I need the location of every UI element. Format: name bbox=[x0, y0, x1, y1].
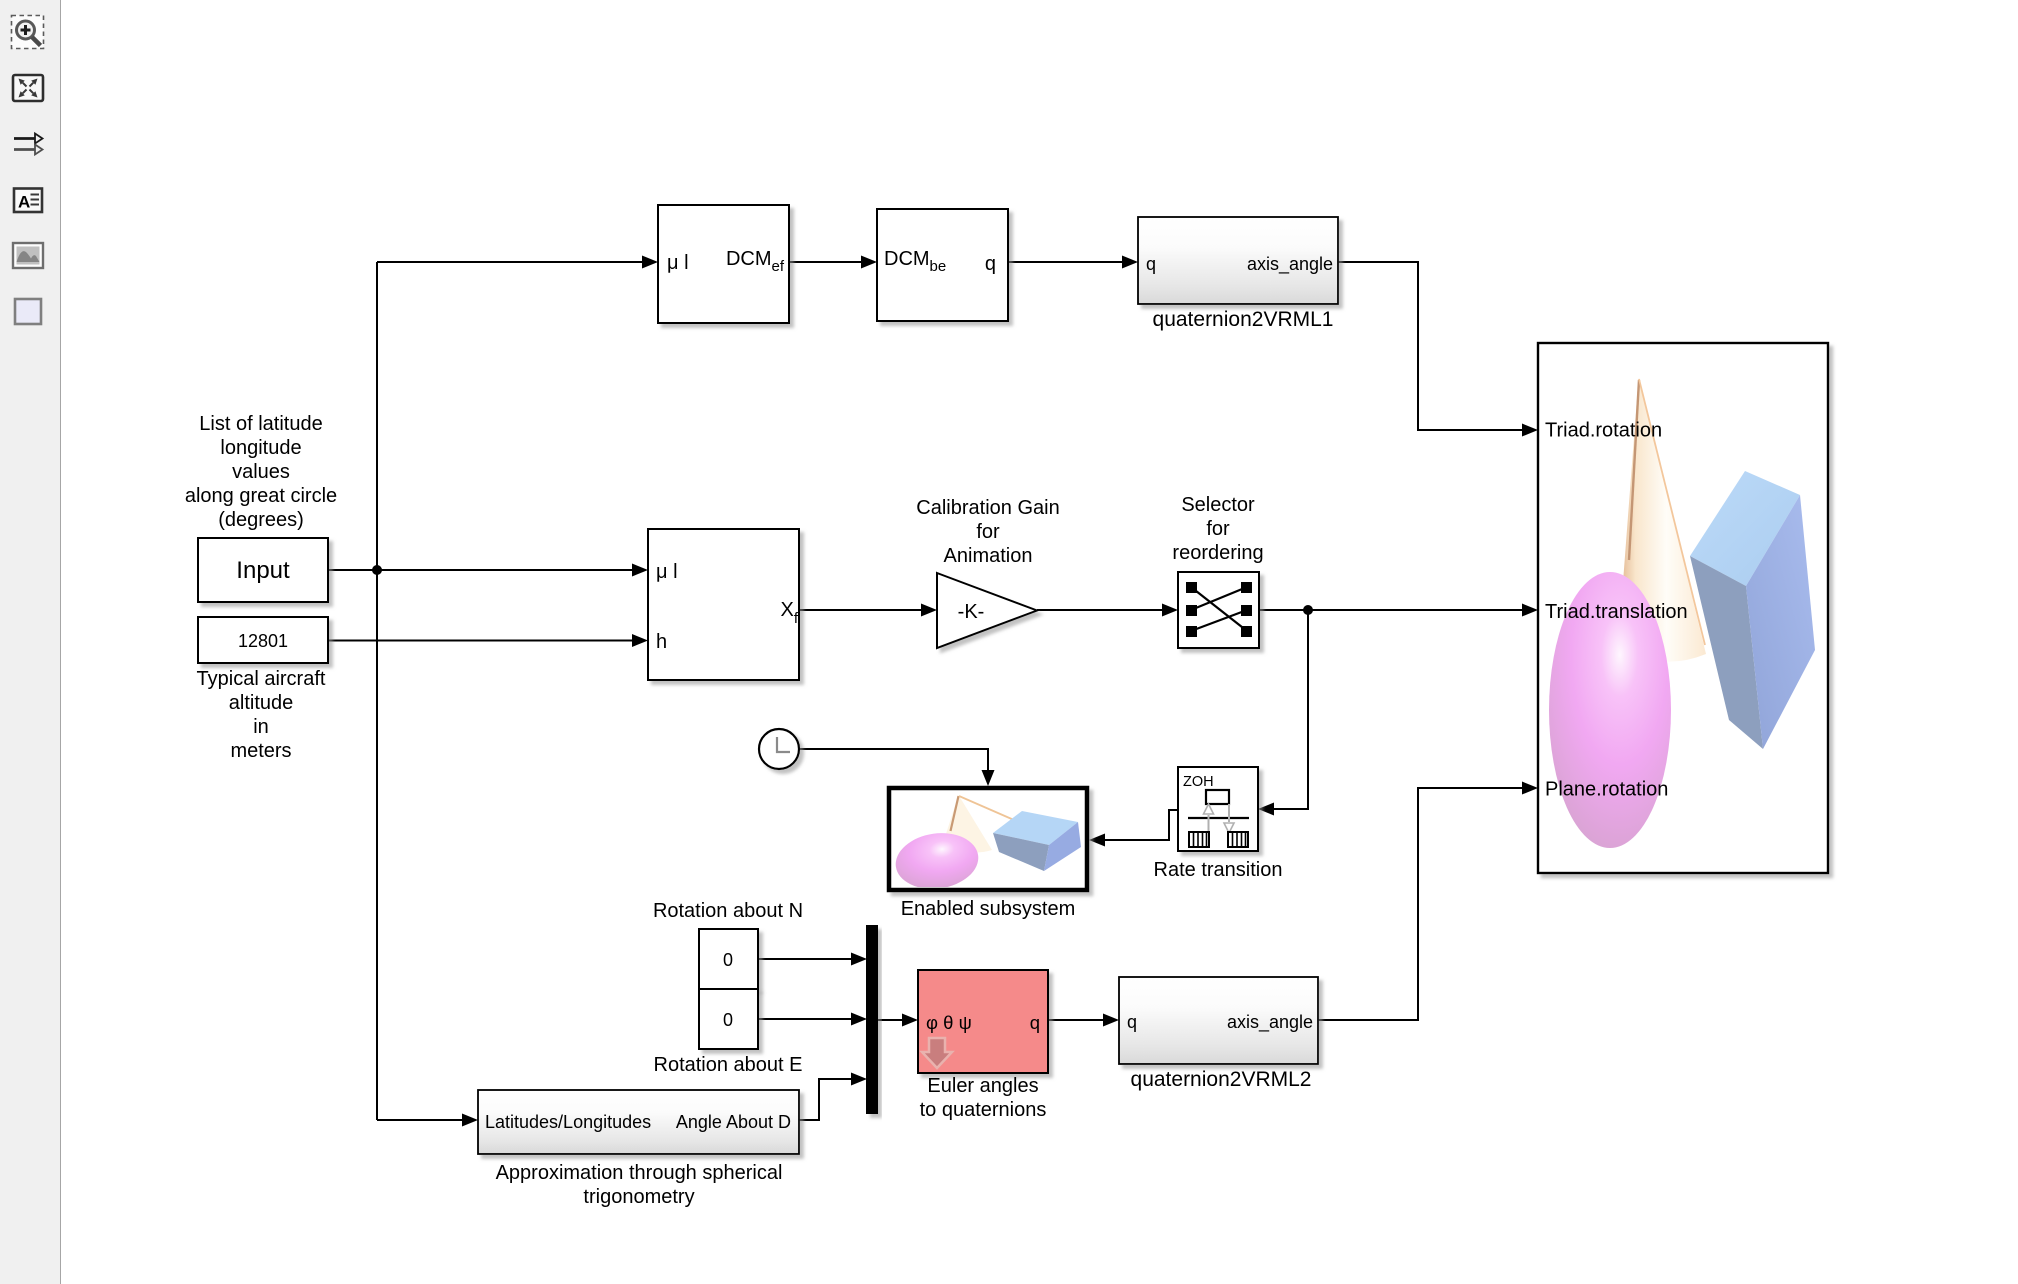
svg-text:values: values bbox=[232, 461, 290, 483]
svg-text:Latitudes/Longitudes: Latitudes/Longitudes bbox=[485, 1112, 651, 1132]
svg-text:meters: meters bbox=[230, 740, 291, 762]
svg-text:0: 0 bbox=[723, 950, 733, 970]
svg-text:Plane.rotation: Plane.rotation bbox=[1545, 779, 1668, 801]
block constant Rotation about E bbox=[699, 989, 758, 1049]
wire selector to Triad.translation bbox=[1259, 609, 1524, 611]
svg-text:φ θ ψ: φ θ ψ bbox=[926, 1012, 972, 1033]
svg-text:-K-: -K- bbox=[958, 601, 985, 623]
toolbar icon: blank square bbox=[15, 299, 41, 324]
svg-text:quaternion2VRML1: quaternion2VRML1 bbox=[1153, 308, 1334, 331]
svg-text:(degrees): (degrees) bbox=[218, 509, 304, 531]
toolbar icon: image bbox=[13, 243, 43, 268]
svg-text:Typical aircraft: Typical aircraft bbox=[197, 668, 326, 690]
arrowhead into Latitudes/Longitudes bbox=[462, 1114, 478, 1127]
wire gain to selector bbox=[1037, 609, 1164, 611]
svg-text:12801: 12801 bbox=[238, 631, 288, 651]
svg-text:reordering: reordering bbox=[1172, 542, 1263, 564]
left comb bbox=[1189, 832, 1209, 847]
svg-text:altitude: altitude bbox=[229, 692, 294, 714]
svg-text:quaternion2VRML2: quaternion2VRML2 bbox=[1131, 1068, 1312, 1091]
svg-text:Calibration Gain: Calibration Gain bbox=[916, 497, 1059, 519]
wire quaternion2VRML2 to Plane.rotation bbox=[1318, 788, 1524, 1020]
blue box left face bbox=[1690, 556, 1763, 749]
svg-text:List of latitude: List of latitude bbox=[199, 413, 322, 435]
svg-text:trigonometry: trigonometry bbox=[583, 1186, 694, 1208]
svg-text:ZOH: ZOH bbox=[1183, 774, 1214, 790]
svg-text:h: h bbox=[656, 631, 667, 653]
wire quaternion2VRML1 to Triad.rotation bbox=[1338, 262, 1524, 430]
red block down-arrow icon bbox=[922, 1038, 952, 1068]
block LLA to flat earth subsystem bbox=[648, 529, 799, 680]
wire constant N to mux bbox=[758, 958, 853, 960]
wire vertical branch line bbox=[376, 262, 378, 1120]
toolbar icon: signal arrows bbox=[14, 134, 43, 155]
wire Input block to junction and big vertical branch bbox=[329, 569, 377, 571]
arrowhead into DCM_ef bbox=[642, 256, 658, 269]
svg-text:Triad.translation: Triad.translation bbox=[1545, 601, 1688, 623]
block rate transition bbox=[1178, 767, 1258, 851]
mini blue box top face bbox=[993, 811, 1078, 845]
block mux bbox=[866, 925, 878, 1114]
block DCM_ef (subsystem) bbox=[658, 205, 789, 323]
mini blue box right face bbox=[1044, 822, 1081, 871]
svg-text:Animation: Animation bbox=[944, 545, 1033, 567]
arrowhead into Triad.rotation bbox=[1522, 424, 1538, 437]
svg-text:Euler angles: Euler angles bbox=[927, 1075, 1038, 1097]
wire Euler angles to quaternion2VRML2 bbox=[1048, 1019, 1105, 1021]
arrowhead into quaternion2VRML1 bbox=[1122, 256, 1138, 269]
wire rate transition to enabled subsystem bbox=[1105, 810, 1178, 840]
arrowhead into mux input 2 bbox=[851, 1013, 867, 1026]
svg-text:Selector: Selector bbox=[1181, 494, 1255, 516]
blue box top face bbox=[1690, 471, 1800, 586]
arrowhead into mu-l port bbox=[632, 564, 648, 577]
svg-text:Rotation about E: Rotation about E bbox=[654, 1054, 803, 1076]
svg-text:μ l: μ l bbox=[656, 561, 678, 583]
block selector bbox=[1178, 572, 1259, 648]
wire clock to enabled subsystem bbox=[799, 749, 988, 772]
mini blue box left face bbox=[993, 833, 1049, 871]
svg-text:q: q bbox=[1146, 254, 1156, 274]
arrowhead into Plane.rotation bbox=[1522, 782, 1538, 795]
wire 12801 to h input bbox=[328, 640, 634, 642]
wire junction down to rate transition bbox=[1274, 610, 1308, 809]
gray down arrow bbox=[1228, 804, 1230, 822]
arrowhead into quaternion2VRML2 bbox=[1103, 1014, 1119, 1027]
mini cone bbox=[944, 795, 992, 852]
right comb bbox=[1228, 832, 1248, 847]
svg-text:axis_angle: axis_angle bbox=[1247, 254, 1333, 275]
svg-text:q: q bbox=[1030, 1012, 1040, 1033]
svg-text:μ l: μ l bbox=[667, 252, 689, 274]
wire constant E to mux bbox=[758, 1018, 853, 1020]
wire junction to mu-l input bbox=[377, 569, 634, 571]
svg-text:Rate transition: Rate transition bbox=[1154, 859, 1283, 881]
block enabled subsystem bbox=[889, 788, 1087, 890]
svg-text:q: q bbox=[1127, 1012, 1137, 1032]
toolbar icon: fit to view bbox=[13, 75, 43, 101]
svg-text:longitude: longitude bbox=[220, 437, 301, 459]
block Input (constant) bbox=[198, 538, 328, 602]
arrowhead into rate transition (points left) bbox=[1258, 803, 1274, 816]
svg-text:A: A bbox=[18, 193, 30, 212]
arrowhead into mux input 1 bbox=[851, 953, 867, 966]
arrowhead into DCM_be bbox=[861, 256, 877, 269]
arrowhead into Euler angles bbox=[902, 1014, 918, 1027]
svg-text:in: in bbox=[253, 716, 269, 738]
arrowhead into mux input 3 bbox=[851, 1073, 867, 1086]
svg-text:for: for bbox=[1206, 518, 1230, 540]
svg-text:Angle About D: Angle About D bbox=[676, 1112, 791, 1132]
toolbar background bbox=[0, 0, 60, 1284]
cone 3d bbox=[1618, 378, 1706, 662]
block Euler angles to quaternions bbox=[918, 970, 1048, 1073]
pink ellipsoid 3d bbox=[1549, 572, 1671, 848]
block quaternion2VRML1 (masked subsystem) bbox=[1138, 217, 1338, 304]
block clock bbox=[759, 729, 799, 769]
svg-text:axis_angle: axis_angle bbox=[1227, 1012, 1313, 1033]
block Latitudes/Longitudes (masked subsystem) bbox=[478, 1090, 799, 1154]
arrowhead into h port bbox=[632, 634, 648, 647]
gray up arrow bbox=[1208, 815, 1210, 833]
svg-text:to quaternions: to quaternions bbox=[920, 1099, 1047, 1121]
wire DCM_be to quaternion2VRML1 bbox=[1008, 261, 1124, 263]
block quaternion2VRML2 (masked subsystem) bbox=[1119, 977, 1318, 1064]
arrowhead into gain bbox=[921, 604, 937, 617]
svg-text:q: q bbox=[985, 253, 996, 275]
svg-text:Enabled subsystem: Enabled subsystem bbox=[901, 898, 1076, 920]
block 12801 (constant) bbox=[198, 617, 328, 663]
toolbar icon: zoom tool (selected, dashed marquee) bbox=[12, 16, 44, 49]
svg-text:Rotation about N: Rotation about N bbox=[653, 900, 803, 922]
arrowhead into enabled subsystem right (points left) bbox=[1089, 834, 1105, 847]
block constant Rotation about N bbox=[699, 929, 758, 989]
svg-text:along great circle: along great circle bbox=[185, 485, 337, 507]
svg-text:Triad.rotation: Triad.rotation bbox=[1545, 420, 1662, 442]
block VR Sink bbox=[1538, 343, 1828, 873]
svg-text:Input: Input bbox=[236, 557, 290, 584]
wire DCM_ef to DCM_be bbox=[789, 261, 863, 263]
wire Xf to gain bbox=[799, 609, 923, 611]
arrowhead into selector bbox=[1162, 604, 1178, 617]
block DCM_be (subsystem) bbox=[877, 209, 1008, 321]
arrowhead into Triad.translation bbox=[1522, 604, 1538, 617]
wire mux to Euler angles bbox=[878, 1019, 904, 1021]
junction node after selector bbox=[1303, 605, 1313, 615]
junction node on Input wire bbox=[372, 565, 382, 575]
svg-text:Approximation through spherica: Approximation through spherical bbox=[496, 1162, 783, 1184]
toolbar icon: annotation A bbox=[14, 189, 42, 213]
wire branch to Latitudes/Longitudes input bbox=[377, 1119, 464, 1121]
blue box right face bbox=[1746, 495, 1815, 749]
wire Angle About D to mux bbox=[799, 1079, 853, 1120]
svg-text:0: 0 bbox=[723, 1010, 733, 1030]
wire branch to DCM_ef input bbox=[377, 261, 644, 263]
arrowhead into enabled subsystem top (points down) bbox=[982, 770, 995, 786]
mini pink ellipsoid bbox=[892, 828, 982, 894]
svg-text:for: for bbox=[976, 521, 1000, 543]
block gain -K- (triangle) bbox=[937, 573, 1037, 648]
